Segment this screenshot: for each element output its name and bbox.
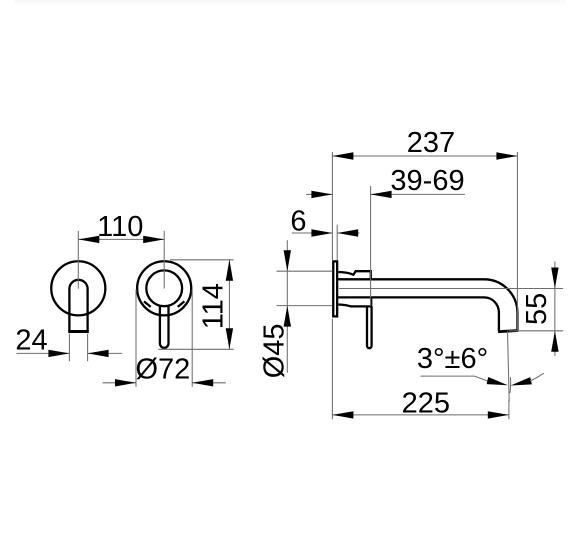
dimension 39-69 extension line bbox=[370, 186, 372, 306]
dimension 114 extension lines bbox=[159, 260, 234, 350]
right inner ring bbox=[146, 270, 182, 306]
dimension O45 arrow top bbox=[284, 250, 291, 271]
cartridge dome top (side view) bbox=[338, 271, 371, 279]
lever handle (side view) bbox=[367, 306, 372, 348]
dimension 225 extension lines bbox=[332, 319, 509, 420]
dimension 110 arrow left bbox=[78, 236, 99, 243]
dimension O45 label bbox=[258, 323, 290, 378]
svg-text:237: 237 bbox=[407, 127, 455, 159]
angle arrow left bbox=[487, 377, 509, 389]
svg-text:114: 114 bbox=[197, 283, 229, 329]
dimension 237 extension lines bbox=[332, 152, 517, 330]
left escutcheon circle (front view, valve trim) bbox=[51, 261, 105, 315]
svg-text:24: 24 bbox=[15, 325, 47, 357]
dimension 6 line bbox=[292, 232, 360, 234]
left lever handle (front view, capsule) bbox=[69, 280, 87, 331]
dimension 24 line bbox=[16, 352, 122, 354]
dimension O45 line bbox=[286, 240, 288, 373]
dimension 237 arrow right bbox=[496, 152, 517, 159]
dimension 225 arrow left bbox=[332, 411, 353, 418]
dimension O72 line bbox=[103, 382, 226, 384]
dimension 55 line bbox=[554, 262, 556, 357]
right centerline bbox=[163, 231, 165, 289]
svg-text:55: 55 bbox=[521, 293, 553, 325]
spout axis line bbox=[339, 288, 563, 290]
dimension 114 label bbox=[197, 283, 229, 329]
angle reference slanted line bbox=[508, 331, 510, 402]
dimension O72 arrow left bbox=[115, 379, 136, 386]
dimension O72 extension lines bbox=[136, 290, 192, 387]
dimension 237 line bbox=[332, 155, 517, 157]
dimension 6 arrow right bbox=[337, 229, 358, 236]
angle arrow right bbox=[510, 377, 532, 389]
dimension 39-69 line bbox=[306, 193, 465, 195]
svg-text:Ø72: Ø72 bbox=[135, 354, 190, 386]
cartridge dome bottom / valve body (side view) bbox=[338, 298, 371, 307]
svg-text:6: 6 bbox=[290, 205, 306, 237]
page top shadow bbox=[15, 0, 565, 7]
dimension 55 label bbox=[521, 293, 553, 325]
dimension 114 line bbox=[228, 260, 230, 350]
dimension 114 arrow bottom bbox=[226, 328, 233, 349]
angle arrow right tail bbox=[530, 373, 544, 381]
svg-text:3°±6°: 3°±6° bbox=[417, 343, 488, 375]
dimension 225 line bbox=[332, 414, 508, 416]
dimension 24 arrow right bbox=[88, 350, 109, 357]
svg-text:110: 110 bbox=[97, 211, 143, 243]
left lever end face bbox=[68, 330, 89, 333]
right escutcheon outer circle (front view, spout trim) bbox=[137, 261, 191, 315]
svg-text:225: 225 bbox=[402, 388, 450, 420]
dimension O72 arrow right bbox=[192, 379, 213, 386]
dimension 110 line bbox=[78, 238, 164, 240]
dimension 225 arrow right bbox=[488, 411, 509, 418]
dimension 6 extension line bbox=[336, 225, 338, 261]
svg-text:39-69: 39-69 bbox=[390, 165, 464, 197]
dimension 39-69 arrow left bbox=[311, 191, 332, 198]
spout outer contour bbox=[337, 279, 517, 330]
dimension 114 arrow top bbox=[226, 260, 233, 281]
dimension 55 arrow bottom bbox=[551, 331, 558, 352]
angle dimension arc bbox=[509, 377, 512, 393]
tick mark lower-right bbox=[178, 301, 185, 307]
dimension 39-69 arrow right bbox=[371, 191, 392, 198]
right lever handle (front view) bbox=[160, 305, 169, 348]
spout outlet face bbox=[498, 331, 518, 332]
angle leader line bbox=[421, 376, 490, 382]
tick mark lower-left bbox=[144, 301, 151, 307]
spout inner contour bbox=[337, 297, 499, 331]
dimension 55 extension line bottom bbox=[509, 330, 563, 332]
dimension 237 arrow left bbox=[332, 152, 353, 159]
dimension O45 arrow bottom bbox=[284, 306, 291, 327]
dimension 6 arrow left bbox=[311, 229, 332, 236]
dimension 110 arrow right bbox=[143, 236, 164, 243]
dimension 55 arrow top bbox=[551, 268, 558, 289]
dimension 24 arrow left bbox=[48, 350, 69, 357]
left centerline bbox=[77, 231, 79, 289]
dimension 24 extension lines bbox=[69, 334, 87, 362]
svg-text:Ø45: Ø45 bbox=[258, 323, 290, 378]
wall plate (side view) bbox=[333, 261, 337, 316]
dimension O45 extension lines bbox=[277, 271, 333, 305]
